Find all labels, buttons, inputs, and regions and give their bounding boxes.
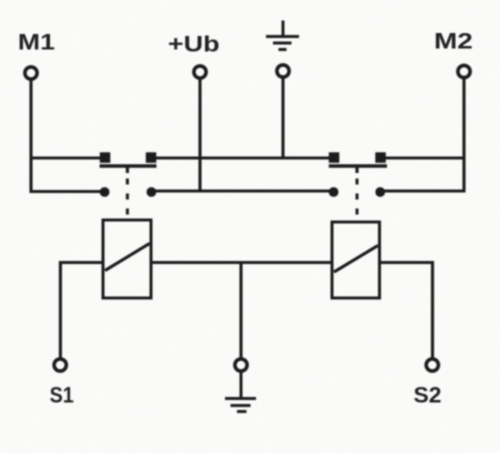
contact K1 actuator stub	[126, 166, 129, 173]
wire +Ub vertical	[198, 80, 201, 192]
ground bottom symbol	[225, 373, 256, 412]
terminal +Ub	[194, 66, 206, 78]
wire S2 drop	[431, 261, 434, 358]
terminal S2	[426, 359, 438, 371]
svg-text:+Ub: +Ub	[168, 33, 220, 57]
svg-text:S1: S1	[50, 384, 75, 408]
wire lower middle bus (+Ub bus)	[152, 189, 335, 192]
wire coil row right	[380, 261, 434, 264]
wire M2 vertical	[462, 79, 465, 193]
terminal S1	[54, 359, 66, 371]
ground top symbol	[266, 21, 299, 50]
dashed actuator link K1	[126, 179, 129, 221]
contact K2 fixed square left	[329, 152, 340, 163]
relay coil K1 diagonal	[105, 244, 150, 271]
wire coil row middle	[151, 261, 332, 264]
svg-text:M2: M2	[434, 29, 473, 53]
wire M2 upper branch	[380, 156, 464, 159]
contact K1 dot left	[100, 187, 110, 197]
contact K1 fixed square left	[100, 152, 111, 163]
contact K2 dot left	[329, 187, 339, 197]
wire M1 vertical	[29, 81, 32, 193]
wire M1 upper branch	[31, 156, 101, 159]
terminal ground bottom	[235, 359, 247, 371]
relay coil K2 diagonal	[334, 246, 378, 273]
terminal M1	[25, 67, 37, 79]
terminal ground top	[277, 65, 289, 77]
svg-text:M1: M1	[18, 31, 55, 55]
contact K2 fixed square right	[375, 152, 386, 163]
wire M2 lower branch	[380, 189, 464, 192]
wire coil row left	[60, 261, 103, 264]
wire M1 lower branch	[30, 190, 101, 193]
wire upper middle bus (ground bus)	[151, 156, 334, 159]
contact K2 actuator stub	[355, 166, 358, 173]
contact K1 fixed square right	[146, 152, 157, 163]
contact K2 dot right	[375, 187, 385, 197]
wire S1 drop	[59, 261, 62, 358]
relay coil K1	[103, 220, 151, 298]
terminal M2	[458, 65, 470, 77]
contact K1 dot right	[147, 187, 157, 197]
wire ground top vertical	[281, 78, 284, 158]
dashed actuator link K2	[356, 179, 359, 223]
svg-text:S2: S2	[414, 383, 442, 408]
wire center ground drop	[239, 263, 242, 358]
relay coil K2	[332, 222, 380, 298]
contact K1 movable bridge bar	[100, 164, 157, 168]
contact K2 movable bridge bar	[329, 164, 387, 168]
